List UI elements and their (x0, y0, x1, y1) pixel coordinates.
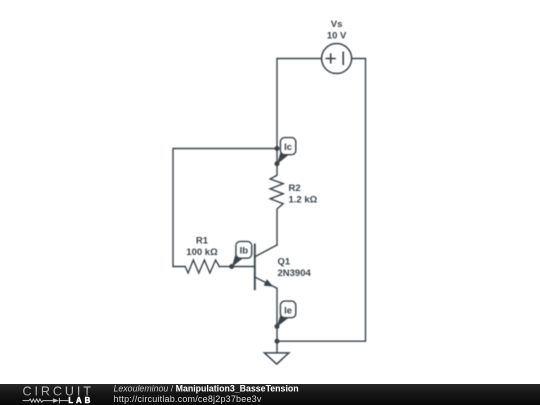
svg-text:Vs: Vs (331, 19, 343, 30)
svg-text:Ic: Ic (284, 142, 292, 153)
svg-text:LAB: LAB (68, 396, 93, 405)
svg-text:http://circuitlab.com/ce8j2p37: http://circuitlab.com/ce8j2p37bee3v (114, 394, 262, 404)
svg-text:R1: R1 (196, 236, 209, 247)
svg-text:2N3904: 2N3904 (278, 268, 312, 279)
svg-text:R2: R2 (289, 183, 301, 194)
svg-text:10 V: 10 V (327, 31, 347, 42)
svg-text:1.2 kΩ: 1.2 kΩ (289, 195, 318, 206)
svg-text:Q1: Q1 (278, 257, 291, 268)
svg-text:100 kΩ: 100 kΩ (186, 247, 218, 258)
svg-text:Lexouleminou / Manipulation3_B: Lexouleminou / Manipulation3_BasseTensio… (114, 384, 299, 393)
svg-text:Ie: Ie (284, 305, 292, 316)
svg-text:Ib: Ib (240, 245, 249, 256)
